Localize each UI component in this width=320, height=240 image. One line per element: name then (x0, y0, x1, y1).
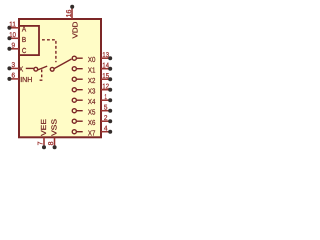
svg-text:11: 11 (9, 22, 16, 29)
svg-text:X6: X6 (88, 118, 96, 127)
throw contact X7 (72, 130, 82, 134)
switch pole contact circle (34, 67, 38, 71)
svg-text:15: 15 (102, 73, 109, 80)
svg-text:X3: X3 (88, 87, 96, 96)
svg-text:13: 13 (102, 52, 109, 59)
svg-text:14: 14 (102, 62, 109, 69)
throw contact X5 (72, 109, 82, 113)
svg-text:9: 9 (12, 43, 16, 50)
dashed control line from INH to switch (38, 69, 42, 80)
pin 7 (VEE) bottom stub (37, 138, 46, 150)
pin 15 (X2) right stub (101, 73, 112, 81)
pin 11 (A) left stub (7, 22, 19, 30)
svg-text:1: 1 (105, 94, 107, 101)
svg-text:12: 12 (102, 83, 109, 90)
pin 10 (B) left stub (7, 32, 19, 40)
svg-text:INH: INH (20, 75, 32, 84)
svg-text:2: 2 (104, 115, 108, 122)
svg-text:A: A (22, 25, 26, 34)
pin 13 (X0) right stub (101, 52, 112, 60)
svg-text:4: 4 (104, 125, 108, 132)
throw contact X4 (72, 98, 82, 102)
pin 9 (C) left stub (7, 43, 19, 51)
pin 1 (X4) right stub (101, 94, 112, 102)
symbol body U1 (4051 analog mux) (19, 19, 101, 137)
svg-text:C: C (22, 46, 27, 55)
pin 2 (X6) right stub (101, 115, 112, 123)
switch second contact circle (50, 67, 54, 71)
pin 3 (X) left stub (7, 62, 19, 70)
switch lever 1 (38, 66, 47, 70)
pin 14 (X1) right stub (101, 62, 112, 70)
pin 6 (INH) left stub (7, 73, 19, 81)
svg-text:8: 8 (48, 141, 55, 145)
svg-text:X7: X7 (88, 129, 96, 138)
pin 4 (X7) right stub (101, 125, 112, 133)
svg-text:10: 10 (9, 32, 16, 39)
throw contact X6 (72, 119, 82, 123)
svg-text:7: 7 (37, 141, 44, 145)
svg-text:16: 16 (66, 10, 73, 18)
svg-text:VEE: VEE (39, 119, 48, 136)
wire X pin to pole contact (26, 67, 34, 69)
pin 12 (X3) right stub (101, 83, 112, 91)
pin 5 (X5) right stub (101, 104, 112, 112)
svg-text:X: X (19, 64, 24, 73)
svg-text:X2: X2 (88, 76, 96, 85)
svg-text:3: 3 (12, 62, 16, 69)
pin 16 (VDD) top stub (66, 5, 74, 19)
dashed control line from ABC box to switch (40, 40, 56, 63)
svg-text:B: B (22, 35, 26, 44)
pin 8 (VSS) bottom stub (48, 138, 57, 150)
svg-text:5: 5 (104, 104, 108, 111)
svg-text:X1: X1 (88, 66, 96, 75)
throw contact X3 (72, 88, 82, 92)
select-inputs inner box (A B C) (19, 26, 39, 55)
svg-text:X0: X0 (88, 55, 96, 64)
throw contact X2 (72, 77, 82, 81)
svg-text:X5: X5 (88, 108, 96, 117)
svg-text:6: 6 (12, 73, 16, 80)
svg-text:VDD: VDD (70, 22, 79, 39)
throw contact X0 (72, 56, 82, 60)
switch lever 2 (wiper to X0) (54, 59, 71, 69)
svg-text:X4: X4 (88, 97, 96, 106)
throw contact X1 (72, 67, 82, 71)
svg-text:VSS: VSS (50, 119, 59, 136)
